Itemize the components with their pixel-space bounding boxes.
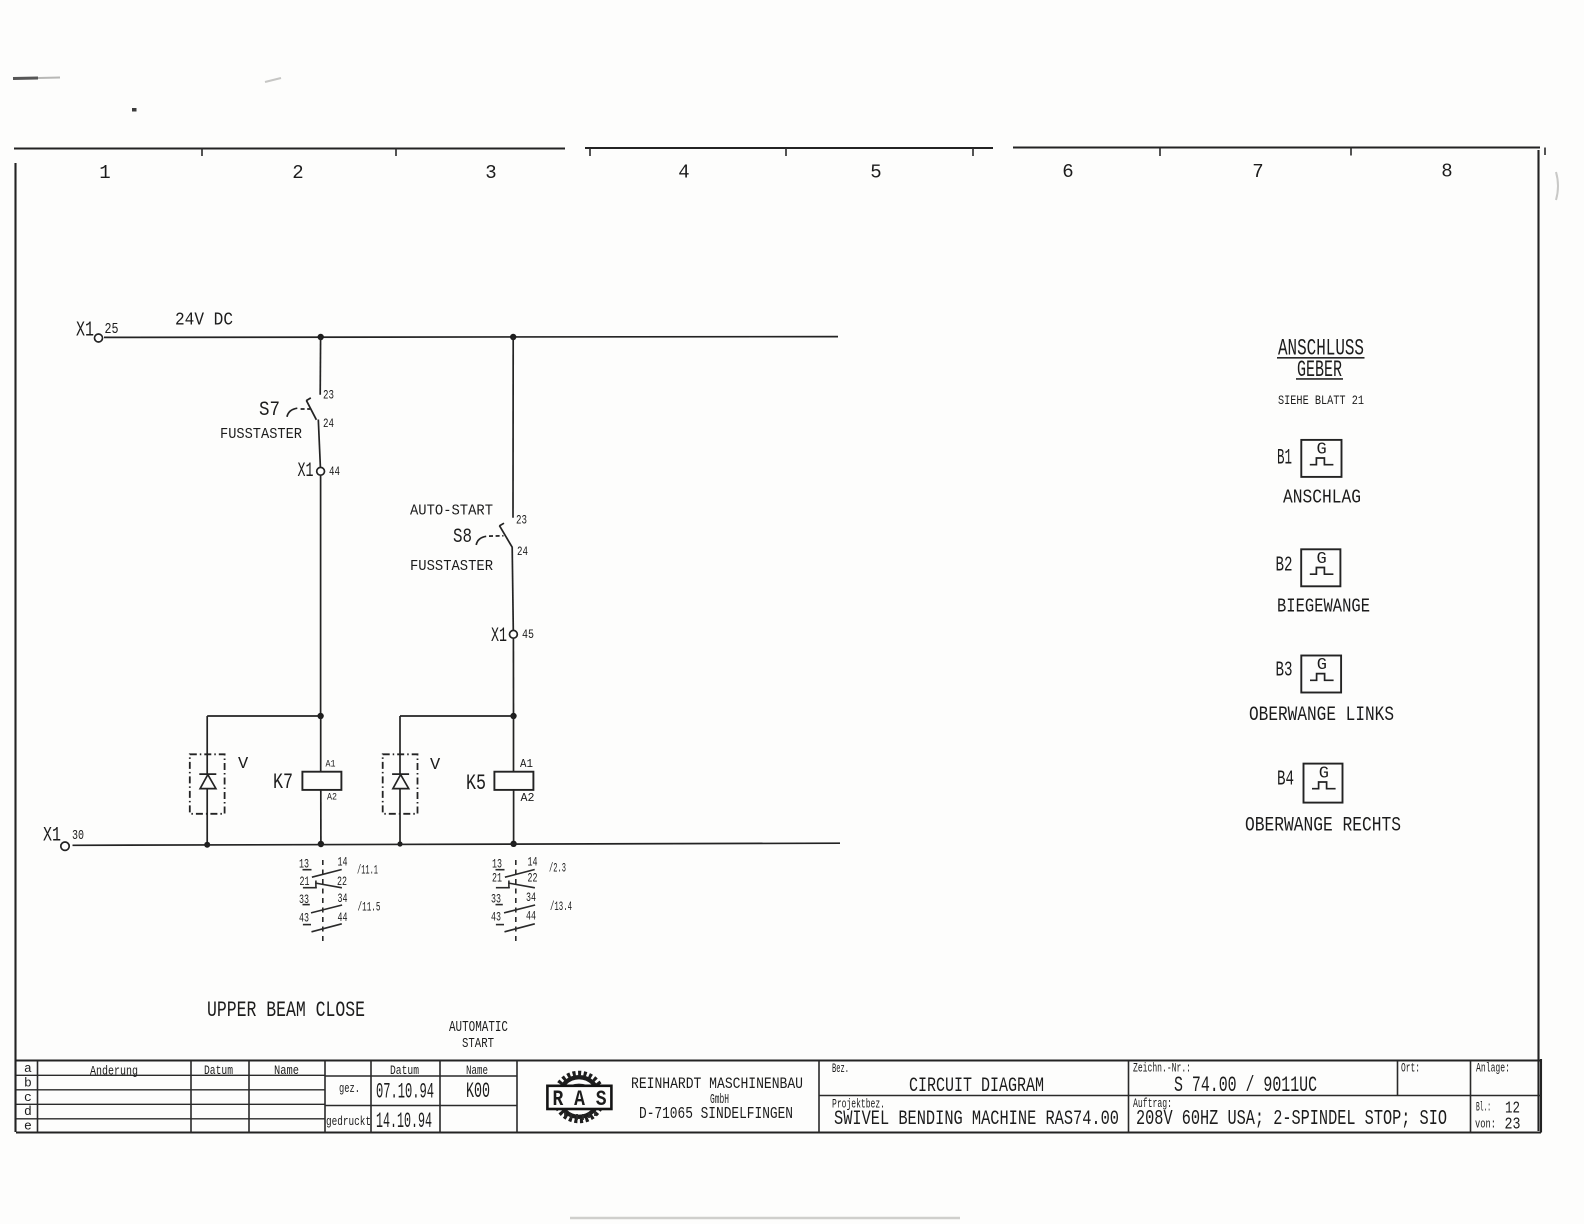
- svg-text:S 74.00 / 9011UC: S 74.00 / 9011UC: [1174, 1073, 1317, 1098]
- svg-text:43: 43: [491, 910, 501, 925]
- svg-text:45: 45: [522, 628, 534, 642]
- svg-text:G: G: [1319, 764, 1329, 783]
- svg-text:OBERWANGE RECHTS: OBERWANGE RECHTS: [1245, 815, 1401, 838]
- svg-text:34: 34: [526, 890, 536, 905]
- svg-text:SWIVEL BENDING MACHINE RAS74.0: SWIVEL BENDING MACHINE RAS74.00: [834, 1108, 1119, 1131]
- svg-text:e: e: [24, 1119, 32, 1134]
- svg-text:B2: B2: [1276, 555, 1293, 578]
- svg-text:8: 8: [1441, 161, 1452, 183]
- svg-text:SIEHE BLATT 21: SIEHE BLATT 21: [1278, 393, 1364, 408]
- svg-text:B3: B3: [1276, 660, 1293, 683]
- svg-text:24: 24: [517, 545, 528, 559]
- svg-text:24: 24: [323, 417, 334, 431]
- svg-text:R A S: R A S: [553, 1087, 607, 1112]
- svg-text:23: 23: [323, 389, 334, 403]
- svg-text:S7: S7: [259, 399, 280, 422]
- svg-text:V: V: [430, 756, 441, 775]
- svg-text:/13.4: /13.4: [550, 899, 572, 914]
- svg-text:1: 1: [99, 162, 110, 184]
- svg-text:44: 44: [526, 909, 536, 924]
- svg-text:43: 43: [299, 911, 309, 926]
- svg-text:/11.1: /11.1: [357, 863, 378, 878]
- svg-text:gez.: gez.: [339, 1081, 360, 1096]
- svg-text:/2.3: /2.3: [549, 861, 566, 876]
- svg-text:2: 2: [292, 162, 303, 184]
- svg-text:V: V: [238, 755, 249, 774]
- svg-text:X1: X1: [298, 460, 314, 483]
- svg-text:G: G: [1317, 441, 1327, 460]
- svg-text:START: START: [462, 1036, 494, 1052]
- svg-text:6: 6: [1062, 161, 1073, 183]
- svg-text:21: 21: [492, 871, 502, 886]
- svg-text:X1: X1: [76, 320, 94, 343]
- svg-text:44: 44: [338, 910, 348, 925]
- svg-text:A1: A1: [326, 760, 336, 771]
- svg-text:G: G: [1317, 550, 1327, 569]
- svg-text:21: 21: [300, 874, 310, 889]
- svg-text:07.10.94: 07.10.94: [376, 1080, 434, 1105]
- svg-text:AUTO-START: AUTO-START: [410, 503, 493, 520]
- svg-text:FUSSTASTER: FUSSTASTER: [410, 558, 493, 575]
- svg-text:G: G: [1317, 656, 1327, 675]
- svg-text:7: 7: [1252, 161, 1263, 183]
- svg-text:A1: A1: [520, 758, 533, 771]
- svg-text:208V 60HZ USA; 2-SPINDEL STOP;: 208V 60HZ USA; 2-SPINDEL STOP; SIO: [1136, 1108, 1447, 1131]
- svg-text:D-71065 SINDELFINGEN: D-71065 SINDELFINGEN: [639, 1105, 793, 1124]
- svg-text:von:: von:: [1475, 1118, 1496, 1132]
- svg-text:14: 14: [338, 855, 348, 870]
- svg-text:K5: K5: [466, 771, 486, 796]
- svg-text:Bez.: Bez.: [832, 1062, 849, 1076]
- svg-text:S8: S8: [453, 526, 472, 549]
- svg-text:Ort:: Ort:: [1401, 1062, 1420, 1076]
- svg-text:X1: X1: [491, 625, 507, 648]
- svg-text:BIEGEWANGE: BIEGEWANGE: [1277, 596, 1370, 618]
- svg-text:23: 23: [516, 514, 527, 528]
- svg-text:OBERWANGE LINKS: OBERWANGE LINKS: [1249, 704, 1394, 727]
- svg-text:ANSCHLAG: ANSCHLAG: [1283, 487, 1361, 509]
- svg-text:a: a: [24, 1061, 32, 1076]
- svg-text:3: 3: [485, 162, 496, 184]
- svg-text:44: 44: [329, 465, 340, 479]
- svg-text:FUSSTASTER: FUSSTASTER: [220, 426, 302, 443]
- svg-text:Name: Name: [466, 1064, 488, 1078]
- svg-text:34: 34: [338, 891, 348, 906]
- svg-text:d: d: [24, 1104, 32, 1119]
- svg-text:K00: K00: [466, 1079, 490, 1104]
- svg-text:REINHARDT MASCHINENBAU: REINHARDT MASCHINENBAU: [631, 1075, 803, 1093]
- svg-text:30: 30: [72, 828, 84, 844]
- svg-text:AUTOMATIC: AUTOMATIC: [449, 1020, 508, 1036]
- svg-text:5: 5: [870, 162, 881, 184]
- svg-text:25: 25: [105, 321, 119, 338]
- svg-text:B1: B1: [1277, 446, 1292, 471]
- svg-text:14.10.94: 14.10.94: [376, 1109, 432, 1134]
- svg-text:X1: X1: [43, 825, 61, 848]
- svg-text:gedruckt: gedruckt: [326, 1114, 371, 1129]
- svg-text:24V DC: 24V DC: [175, 311, 233, 331]
- svg-text:A2: A2: [327, 793, 337, 804]
- svg-text:B4: B4: [1277, 769, 1294, 792]
- svg-text:Bl.:: Bl.:: [1476, 1101, 1491, 1115]
- svg-text:UPPER BEAM CLOSE: UPPER BEAM CLOSE: [207, 998, 365, 1023]
- svg-text:/11.5: /11.5: [358, 900, 381, 915]
- svg-text:Anlage:: Anlage:: [1476, 1062, 1510, 1076]
- svg-text:CIRCUIT DIAGRAM: CIRCUIT DIAGRAM: [909, 1075, 1044, 1098]
- svg-text:Anderung: Anderung: [90, 1065, 138, 1079]
- svg-text:Datum: Datum: [390, 1064, 419, 1078]
- svg-text:Name: Name: [274, 1064, 299, 1078]
- svg-text:14: 14: [528, 855, 538, 870]
- svg-text:b: b: [24, 1076, 32, 1091]
- svg-text:23: 23: [1505, 1116, 1521, 1135]
- svg-text:c: c: [24, 1090, 32, 1105]
- svg-text:22: 22: [528, 871, 538, 886]
- svg-text:K7: K7: [273, 770, 293, 795]
- svg-text:Datum: Datum: [204, 1064, 233, 1078]
- svg-text:A2: A2: [521, 792, 535, 805]
- svg-text:4: 4: [678, 162, 689, 184]
